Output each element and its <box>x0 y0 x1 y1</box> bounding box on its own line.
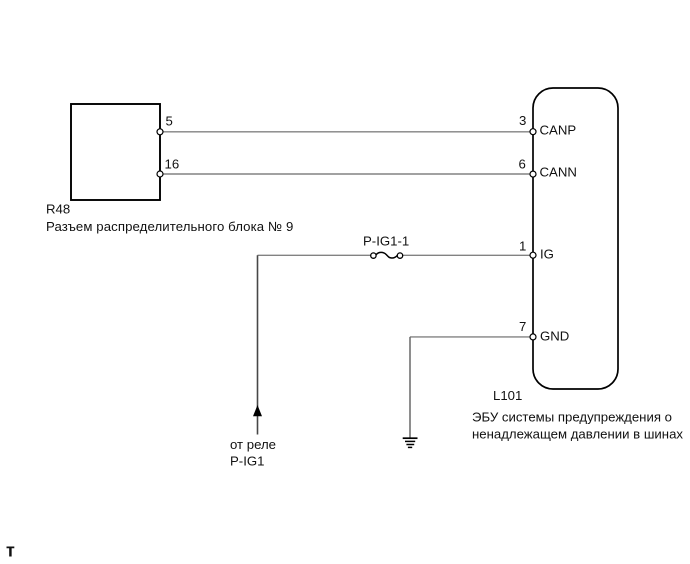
wire IG vertical to arrow <box>257 255 259 434</box>
wire GND vertical <box>409 337 411 438</box>
svg-text:GND: GND <box>540 329 569 344</box>
arrow from relay P-IG1 <box>253 405 262 416</box>
pin 3 terminal circle <box>530 129 536 135</box>
pin 5 terminal circle <box>157 129 163 135</box>
svg-text:CANP: CANP <box>540 123 577 138</box>
svg-text:16: 16 <box>165 156 180 171</box>
svg-text:P-IG1: P-IG1 <box>230 454 264 469</box>
connector R48 block <box>71 104 160 200</box>
pin 16 terminal circle <box>157 171 163 177</box>
svg-text:т: т <box>6 541 15 561</box>
pin 6 terminal circle <box>530 171 536 177</box>
ground symbol <box>403 438 418 447</box>
wire pin16 to CANN <box>160 173 533 175</box>
pin 7 terminal circle <box>530 334 536 340</box>
svg-text:5: 5 <box>166 114 173 129</box>
svg-text:ЭБУ системы предупреждения о: ЭБУ системы предупреждения о <box>472 410 672 425</box>
fuse P-IG1-1 element wavy link <box>376 252 397 258</box>
svg-text:IG: IG <box>540 247 554 262</box>
svg-text:от реле: от реле <box>230 437 276 452</box>
svg-text:ненадлежащем давлении в шинах: ненадлежащем давлении в шинах <box>472 427 683 442</box>
fuse P-IG1-1 right terminal <box>397 253 402 258</box>
wire pin5 to CANP <box>160 131 533 133</box>
svg-text:L101: L101 <box>493 388 522 403</box>
svg-text:R48: R48 <box>46 202 70 217</box>
wire IG horizontal right segment <box>403 254 534 256</box>
pin 1 terminal circle <box>530 252 536 258</box>
wire IG horizontal left segment <box>258 254 371 256</box>
svg-text:7: 7 <box>519 319 526 334</box>
fuse P-IG1-1 left terminal <box>371 253 376 258</box>
svg-text:P-IG1-1: P-IG1-1 <box>363 233 409 248</box>
svg-text:Разъем распределительного блок: Разъем распределительного блока № 9 <box>46 219 293 234</box>
svg-text:6: 6 <box>519 156 526 171</box>
svg-text:3: 3 <box>519 113 526 128</box>
wire GND horizontal <box>410 336 533 338</box>
ECU connector L101 body <box>533 88 618 389</box>
svg-text:1: 1 <box>519 239 526 254</box>
svg-text:CANN: CANN <box>540 164 577 179</box>
